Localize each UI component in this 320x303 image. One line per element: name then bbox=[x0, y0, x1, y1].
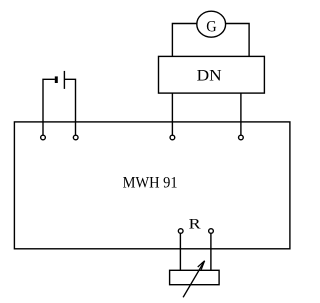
svg-text:G: G bbox=[206, 19, 217, 36]
svg-text:MWH 91: MWH 91 bbox=[123, 174, 178, 191]
svg-text:DN: DN bbox=[197, 67, 222, 84]
svg-text:R: R bbox=[189, 217, 201, 233]
